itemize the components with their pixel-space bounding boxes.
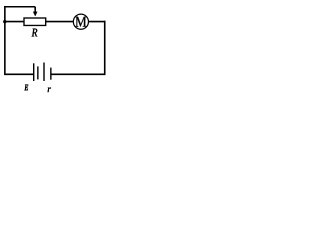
wire: bottom right [51, 73, 105, 75]
wire: wiper vertical drop [34, 7, 36, 12]
node junction dot [3, 20, 6, 23]
wire: right rail [104, 21, 106, 75]
wire: left rail [4, 6, 6, 75]
battery plate 4 (short) [50, 68, 52, 80]
label M [75, 17, 86, 27]
wire: resistor to motor [46, 21, 74, 23]
label r [48, 88, 51, 93]
label R [32, 29, 38, 37]
motor M circle [73, 14, 88, 29]
battery plate 3 (long) [43, 63, 45, 82]
wire: bottom left [5, 73, 34, 75]
wire: top wiper branch [4, 6, 35, 8]
background [0, 0, 109, 97]
resistor R box [24, 18, 46, 25]
battery plate 1 (long) [33, 63, 35, 81]
wire: motor to top-right corner [88, 21, 105, 23]
wire: junction to resistor [5, 21, 24, 23]
label E [25, 85, 29, 91]
battery plate 2 (short) [37, 66, 39, 79]
wiper arrowhead [33, 12, 37, 16]
